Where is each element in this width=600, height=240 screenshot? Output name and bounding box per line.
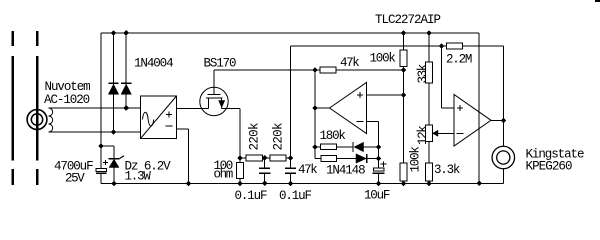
svg-text:100k: 100k	[370, 52, 396, 66]
svg-text:AC-1020: AC-1020	[44, 93, 90, 107]
svg-text:47k: 47k	[298, 163, 318, 177]
svg-text:KPEG260: KPEG260	[526, 160, 573, 174]
svg-text:0.1uF: 0.1uF	[279, 189, 312, 203]
svg-text:BS170: BS170	[204, 57, 237, 71]
svg-text:25V: 25V	[65, 172, 85, 186]
svg-text:100k: 100k	[409, 146, 423, 172]
svg-text:33k: 33k	[416, 64, 430, 84]
svg-text:180k: 180k	[320, 129, 346, 143]
svg-text:220k: 220k	[248, 123, 262, 151]
svg-text:1.3W: 1.3W	[125, 170, 152, 184]
svg-text:ohm: ohm	[214, 168, 234, 182]
svg-text:47k: 47k	[340, 56, 360, 70]
svg-text:3.3k: 3.3k	[434, 163, 460, 177]
svg-text:Nuvotem: Nuvotem	[45, 80, 91, 94]
svg-text:0.1uF: 0.1uF	[235, 189, 268, 203]
svg-text:12k: 12k	[416, 125, 430, 145]
svg-text:10uF: 10uF	[364, 189, 390, 203]
svg-text:2.2M: 2.2M	[446, 53, 472, 67]
svg-text:TLC2272AIP: TLC2272AIP	[375, 13, 441, 27]
svg-text:220k: 220k	[272, 123, 286, 151]
svg-text:1N4004: 1N4004	[134, 57, 174, 71]
svg-text:1N4148: 1N4148	[326, 163, 366, 177]
